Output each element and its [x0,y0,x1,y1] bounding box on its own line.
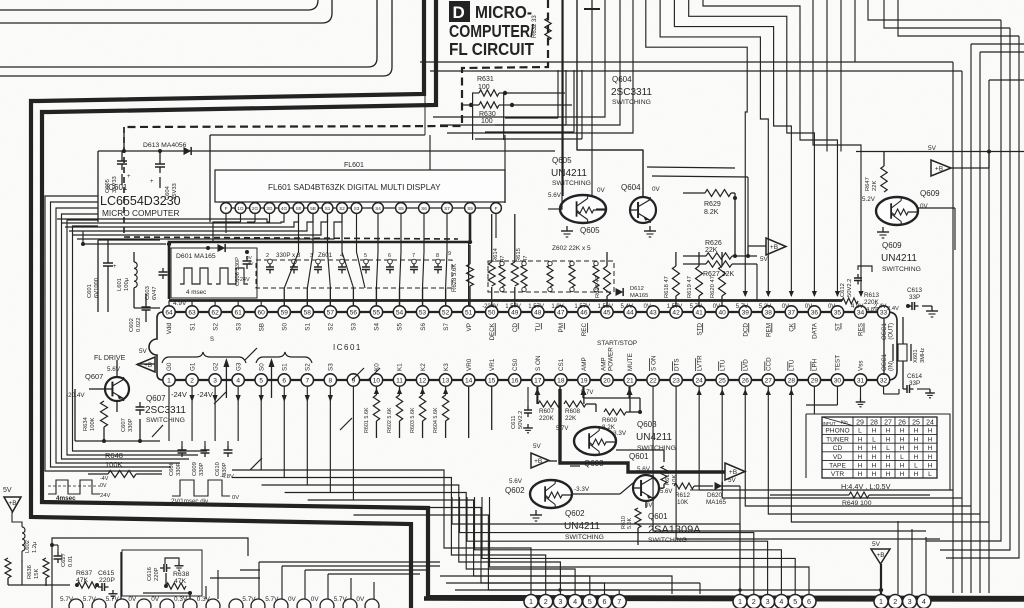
op-amp +B g [4,497,21,512]
node brace G [162,352,246,363]
capacitor C614 [903,373,923,393]
wire [884,317,935,398]
op-amp +B b [931,151,989,176]
op-amp +B c [137,357,155,372]
node 5V left [3,487,12,494]
wire [653,387,926,531]
wire [0,0,332,23]
capacitor C612 [840,266,872,297]
transistor Q601 [629,452,672,509]
resistor R619 [687,252,703,307]
wire [169,288,446,306]
wire [572,450,740,594]
wire [81,231,166,246]
inductor L601 [117,252,137,308]
wire [918,208,955,250]
resistor R636 [27,558,49,579]
wire [495,214,497,238]
capacitor C627 [50,543,74,567]
wire [0,0,392,76]
node scan arrow 2 [269,358,275,398]
ground [561,226,573,237]
resistor R612 [674,483,694,506]
transistor Q609 [876,189,940,225]
node Z602 box [488,261,614,292]
op-amp IC601 outline [149,312,897,380]
wire [475,70,582,139]
op-amp IC601 bottom pin names [166,347,894,371]
ground [877,227,889,238]
capacitor C611 [511,387,533,433]
resistor R630 [462,102,514,125]
capacitor C616 [147,558,184,581]
node Q601 label [648,512,701,544]
resistor R648 [88,451,162,478]
wire [12,512,22,562]
wire [259,562,440,599]
wire [535,387,632,412]
node 5V right [856,145,1024,154]
transistor Q607 [85,366,129,401]
transistor Q605 [548,156,606,235]
resistor R617 [595,252,611,307]
wire [826,0,828,152]
wire [446,583,700,594]
op-amp +B e [531,443,557,468]
resistor R632 [532,15,551,40]
node Z601 label [266,251,451,259]
wire [0,0,377,67]
node FL DRIVE [94,348,148,362]
wire [123,127,125,237]
wire [167,214,472,299]
wire [98,240,160,322]
wire [284,214,447,307]
capacitor C610 [215,441,233,476]
op-amp IC601 bottom pins [163,374,890,386]
node connector J2 [733,595,816,608]
node scan arrow 1 [223,358,229,398]
wire [452,497,809,594]
capacitor C613 [906,287,923,310]
resistor R620 [710,252,726,307]
wire [152,348,380,470]
resistor R611 [661,466,678,485]
wire [8,552,260,599]
resistor R618 [664,252,680,307]
wire [646,0,840,297]
wire [953,44,1024,593]
node START/STOP label [597,340,637,347]
resistor R601-R604 [364,387,449,438]
wire [57,214,342,239]
resistor Z602 resistors [499,261,599,291]
capacitor C609 [192,441,210,476]
wire [124,237,458,239]
node title [449,2,534,59]
ground [584,0,600,9]
node Z602 label [552,245,591,252]
wire [926,20,1019,558]
inductor L602 [22,527,38,553]
resistor R637 [75,570,99,588]
node connector J4 [60,596,379,608]
node table [822,417,937,478]
wire [52,538,248,608]
wire [122,550,202,596]
node voltages top [173,300,886,310]
node D601 box [171,248,257,298]
wire [98,135,555,222]
wire [75,360,160,443]
wire [0,0,318,10]
capacitor C607 [121,402,145,432]
op-amp IC601 top pin names [166,322,894,340]
node X601 [893,344,926,363]
resistor R647 [862,151,887,203]
resistor R634 [83,401,108,431]
resistor R615 [511,248,529,286]
capacitor C606 [235,250,252,286]
node waveform2 [171,474,239,505]
node FL601 title [268,183,441,192]
diode D613 [122,127,191,155]
node table note [841,482,891,491]
transistor Q602 [505,478,590,508]
node Q609 label [881,241,921,273]
wire [31,0,424,608]
capacitor C602 [129,302,151,332]
wire [591,9,593,196]
node connector J1 [524,595,626,608]
resistor R635 [0,558,11,579]
wire [806,387,899,414]
node IC601 label [333,343,362,352]
node connector J3 [874,595,931,608]
node waveform1 [48,476,110,502]
node S label [210,337,214,343]
wire [469,387,492,438]
resistor R627 [683,261,757,300]
diode D612 [616,286,649,299]
wire [232,470,619,594]
wire [813,0,864,297]
resistor R649 [770,492,930,507]
wire [169,299,842,302]
transistor Q603 [570,427,627,468]
ground [922,306,938,317]
op-amp +B a [748,238,786,263]
wire [213,214,255,243]
node D tag [449,1,470,22]
wire [868,0,1019,36]
node FL601 pins [221,203,502,214]
resistor R608 [556,401,586,432]
capacitor C601 [87,258,117,298]
node Z601 box [256,260,452,288]
wire [854,0,856,62]
wire [492,214,515,307]
wire [577,0,643,197]
resistor R638 [164,571,189,589]
op-amp +B d [725,463,745,480]
wire [169,387,353,500]
resistor R631 [472,76,507,96]
node voltages bottom [171,390,593,399]
transistor Q604 [621,183,661,223]
wire [676,387,940,539]
wire [548,0,643,209]
wire [697,387,989,522]
node FL601 box [215,162,505,202]
wire [424,599,1024,600]
node Q604 label [611,75,652,106]
diode D601 label [176,253,216,260]
resistor R626 [683,240,757,259]
capacitor Z601 caps [266,259,442,273]
op-amp +B f [871,541,890,594]
wire [468,242,470,306]
diode D620 [706,477,737,506]
wire [220,207,502,209]
wire [840,0,842,152]
wire [560,0,562,209]
wire [473,93,572,140]
resistor R609 [602,409,626,431]
resistor R607 [538,401,560,422]
ground [530,510,542,521]
capacitor C615 [98,570,118,598]
wire [455,588,883,592]
capacitor C603 [145,268,172,300]
node Q602 label [564,509,604,541]
capacitor C604 [150,151,178,200]
ground [644,226,656,237]
wire [647,167,748,246]
resistor R613 [842,292,899,313]
op-amp IC601 top pins [163,306,890,318]
wire [425,64,505,203]
resistor R614 [488,247,506,286]
capacitor C608 [169,441,187,476]
node waveform D601 [180,255,254,296]
wire [534,387,642,414]
resistor R610 [621,508,641,529]
wire [898,521,926,594]
op-amp IC601 label [100,183,181,218]
node Q603 label [636,420,676,452]
wire [124,0,548,127]
resistor R629 [683,190,737,257]
node -204V [66,392,85,399]
wire [690,414,950,490]
diode D601 [206,244,225,252]
resistor R628 [452,245,474,307]
node Q607 label [145,394,186,424]
wire [440,576,672,594]
capacitor C605 [105,151,131,193]
wire [420,62,962,71]
wire [433,0,633,133]
node brace S [256,352,312,363]
wire [560,389,725,472]
wire [45,196,207,471]
